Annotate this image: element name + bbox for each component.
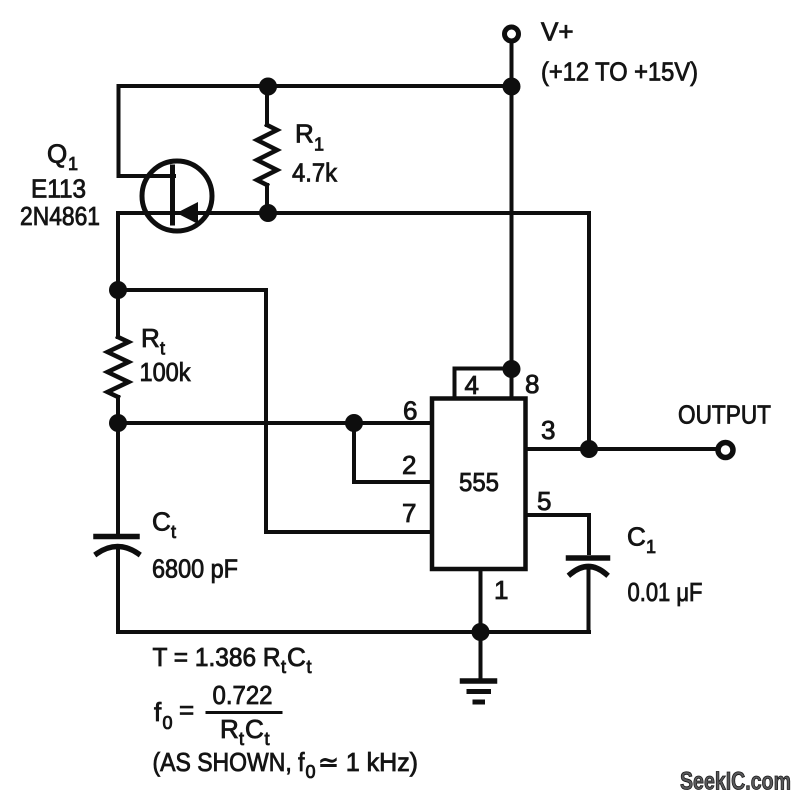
svg-text:2: 2 bbox=[402, 450, 416, 480]
svg-text:1: 1 bbox=[314, 135, 324, 155]
svg-text:1: 1 bbox=[68, 154, 78, 174]
svg-text:R: R bbox=[220, 714, 239, 744]
svg-text:100k: 100k bbox=[140, 357, 192, 387]
svg-text:C: C bbox=[152, 507, 171, 537]
svg-text:Q: Q bbox=[47, 139, 67, 169]
svg-text:=: = bbox=[179, 695, 194, 725]
svg-text:(+12 TO +15V): (+12 TO +15V) bbox=[541, 57, 698, 87]
svg-text:1: 1 bbox=[646, 537, 656, 557]
svg-text:5: 5 bbox=[537, 486, 551, 516]
svg-text:4.7k: 4.7k bbox=[292, 158, 338, 188]
svg-text:4: 4 bbox=[465, 370, 479, 400]
svg-text:≃ 1 kHz): ≃ 1 kHz) bbox=[318, 747, 418, 777]
svg-text:C: C bbox=[245, 714, 264, 744]
svg-text:2N4861: 2N4861 bbox=[20, 201, 100, 231]
svg-text:(AS SHOWN, f: (AS SHOWN, f bbox=[153, 747, 306, 777]
svg-text:1: 1 bbox=[494, 575, 508, 605]
svg-text:6800 pF: 6800 pF bbox=[152, 554, 238, 584]
svg-text:0: 0 bbox=[306, 762, 316, 782]
svg-text:R: R bbox=[295, 119, 314, 149]
svg-text:t: t bbox=[265, 729, 270, 749]
svg-text:R: R bbox=[141, 323, 160, 353]
svg-text:6: 6 bbox=[403, 396, 417, 426]
svg-text:8: 8 bbox=[525, 369, 539, 399]
svg-text:0: 0 bbox=[163, 713, 173, 733]
svg-text:t: t bbox=[307, 657, 312, 677]
svg-text:3: 3 bbox=[541, 415, 555, 445]
svg-text:t: t bbox=[160, 339, 165, 359]
svg-text:0.722: 0.722 bbox=[213, 680, 273, 710]
svg-text:SeekIC.com: SeekIC.com bbox=[680, 768, 791, 796]
svg-text:t: t bbox=[239, 729, 244, 749]
svg-text:T = 1.386 R: T = 1.386 R bbox=[153, 642, 281, 672]
svg-text:7: 7 bbox=[402, 498, 416, 528]
svg-text:E113: E113 bbox=[31, 174, 86, 204]
svg-text:f: f bbox=[154, 697, 162, 727]
svg-text:t: t bbox=[171, 522, 176, 542]
svg-text:C: C bbox=[627, 522, 646, 552]
svg-text:555: 555 bbox=[459, 467, 499, 497]
svg-text:C: C bbox=[287, 642, 306, 672]
svg-text:0.01 μF: 0.01 μF bbox=[628, 577, 703, 607]
svg-text:t: t bbox=[281, 657, 286, 677]
svg-text:OUTPUT: OUTPUT bbox=[678, 400, 771, 430]
svg-text:V+: V+ bbox=[541, 17, 574, 47]
